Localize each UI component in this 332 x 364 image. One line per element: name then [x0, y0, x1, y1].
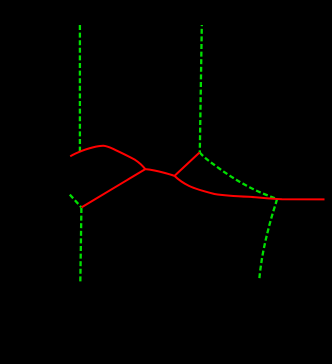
red line B (from junction J1 down-left to lower-left green junction) [82, 169, 146, 207]
green dashed curve (from upper vertex down-right then bending down, right side) [200, 152, 277, 278]
red curve A (left hump: start, over green line 1, peak, descent to junction J1) [70, 146, 145, 169]
green dashed vertical line 3 (lower left, x=81) [80, 208, 81, 284]
red curve E (from junction J2 down-right, flattening, to right end) [175, 176, 325, 200]
green dashed vertical line 1 (left, x=80) [79, 25, 81, 152]
red line D (from junction J2 up-right to vertex with green line 2) [175, 153, 200, 176]
green dashed diagonal segment (lower left) [70, 195, 82, 208]
red line C (from junction J1 gently right-down to junction J2) [145, 169, 174, 176]
green dashed vertical line 2 (x=202 top to 199.8 bottom) [200, 25, 202, 152]
